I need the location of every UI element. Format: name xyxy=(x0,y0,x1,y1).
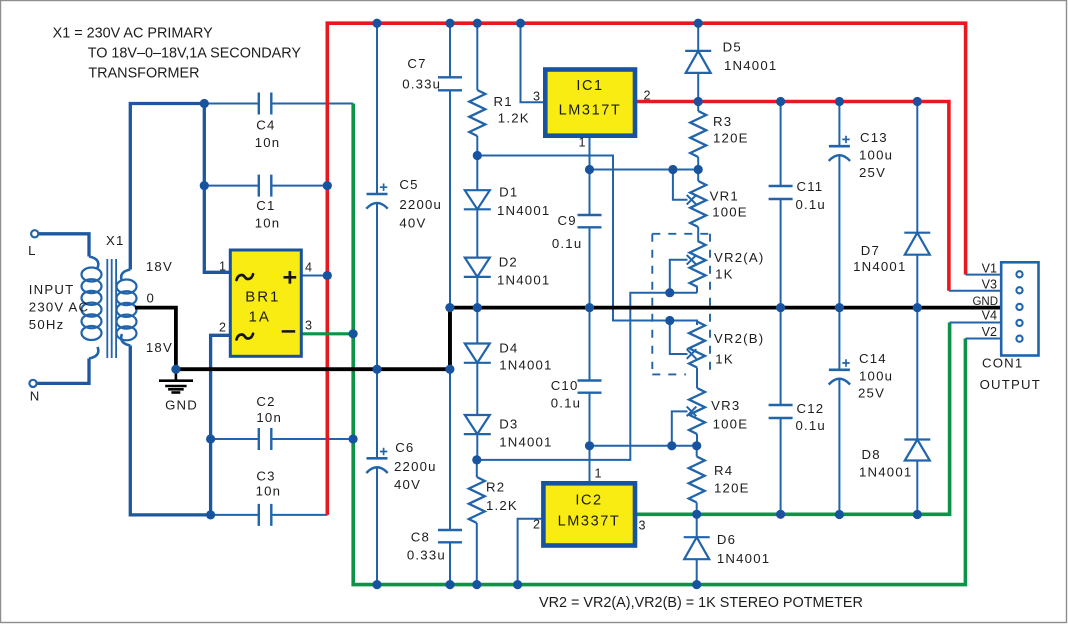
wire IC1 pin1 down / C9 column xyxy=(589,136,591,308)
svg-text:GND: GND xyxy=(165,398,198,413)
wire V4 stub xyxy=(950,322,1002,324)
svg-text:C5: C5 xyxy=(399,177,418,192)
svg-text:V4: V4 xyxy=(982,309,997,323)
green negative rail (unregulated -) xyxy=(353,104,965,585)
svg-text:1K: 1K xyxy=(715,352,734,367)
svg-text:C1: C1 xyxy=(256,198,275,213)
wire V1 stub xyxy=(966,274,1002,276)
svg-text:100E: 100E xyxy=(712,205,748,220)
svg-text:2200u: 2200u xyxy=(399,197,442,212)
svg-text:BR1: BR1 xyxy=(245,289,280,306)
wire IC1 adj line xyxy=(590,169,699,171)
red positive rail (unregulated +) xyxy=(327,23,965,515)
wire secondary bottom to C3 row xyxy=(130,346,210,515)
node green vertical dots xyxy=(349,329,358,338)
svg-text:1N4001: 1N4001 xyxy=(497,203,550,218)
wire secondary top to C4 row xyxy=(130,104,204,270)
svg-text:D6: D6 xyxy=(717,532,736,547)
svg-text:1N4001: 1N4001 xyxy=(497,273,550,288)
wire N lead xyxy=(37,359,90,384)
svg-text:18V: 18V xyxy=(146,340,173,355)
svg-text:LM337T: LM337T xyxy=(558,514,621,530)
potentiometer VR2(B) xyxy=(670,321,705,389)
svg-text:TO 18V–0–18V,1A SECONDARY: TO 18V–0–18V,1A SECONDARY xyxy=(88,46,302,62)
svg-text:C7: C7 xyxy=(407,56,426,71)
title note text xyxy=(53,25,302,81)
svg-text:LM317T: LM317T xyxy=(559,103,622,119)
svg-text:0.1u: 0.1u xyxy=(796,197,826,212)
svg-text:C10: C10 xyxy=(551,378,579,393)
svg-text:1K: 1K xyxy=(715,267,734,282)
svg-text:TRANSFORMER: TRANSFORMER xyxy=(88,66,199,82)
resistor R2 xyxy=(469,460,485,585)
svg-text:V2: V2 xyxy=(982,325,997,339)
svg-text:VR1: VR1 xyxy=(710,189,739,204)
dashed gang box VR2 xyxy=(652,234,710,375)
node red vertical dots xyxy=(323,181,332,190)
green rail IC2 output to V4 xyxy=(635,323,950,515)
black gnd jog over C7/C8 column xyxy=(448,308,452,370)
svg-text:18V: 18V xyxy=(146,259,173,274)
wire IC1 pin3 from top rail xyxy=(521,23,546,102)
svg-text:1N4001: 1N4001 xyxy=(859,465,912,480)
svg-text:1N4001: 1N4001 xyxy=(853,259,906,274)
svg-text:C2: C2 xyxy=(256,394,275,409)
capacitor C6 (electrolytic) xyxy=(366,369,387,584)
diode D8 xyxy=(904,308,930,515)
svg-text:VR2(A): VR2(A) xyxy=(714,250,764,265)
svg-text:C6: C6 xyxy=(395,440,414,455)
svg-text:IC1: IC1 xyxy=(576,78,603,94)
svg-text:25V: 25V xyxy=(858,386,885,401)
primary winding xyxy=(89,257,98,269)
svg-text:1: 1 xyxy=(595,467,602,481)
capacitor C4 xyxy=(204,93,353,115)
wire BR1 pin4 to red xyxy=(301,275,326,277)
svg-text:0.33u: 0.33u xyxy=(407,548,446,563)
diode D7 xyxy=(904,102,930,308)
capacitor C2 xyxy=(211,428,354,450)
svg-text:C12: C12 xyxy=(797,401,825,416)
svg-text:X1: X1 xyxy=(106,233,125,248)
svg-text:10n: 10n xyxy=(255,216,281,231)
svg-text:V3: V3 xyxy=(982,278,997,292)
svg-text:VR3: VR3 xyxy=(711,398,740,413)
node IC1 out rail dots xyxy=(694,97,703,106)
secondary winding xyxy=(121,270,130,282)
wire L lead xyxy=(38,234,89,257)
svg-text:1.2K: 1.2K xyxy=(498,111,530,126)
svg-text:D2: D2 xyxy=(499,255,518,270)
node top rail dots xyxy=(372,19,381,28)
svg-text:1N4001: 1N4001 xyxy=(717,551,770,566)
svg-text:230V AC: 230V AC xyxy=(29,300,89,315)
svg-text:1N4001: 1N4001 xyxy=(724,58,777,73)
wire V3 stub xyxy=(949,290,1001,292)
node ac and adj dots xyxy=(200,99,209,108)
svg-text:2: 2 xyxy=(644,89,651,103)
node labels V1 V3 GND V4 V2 xyxy=(972,261,998,339)
diode D6 xyxy=(684,514,710,584)
svg-text:1: 1 xyxy=(578,136,585,150)
black centre-tap / GND rail xyxy=(135,308,1001,370)
svg-text:100u: 100u xyxy=(859,148,893,163)
svg-text:R3: R3 xyxy=(713,114,732,129)
svg-text:GND: GND xyxy=(972,296,998,308)
terminal L xyxy=(31,230,38,237)
svg-text:C13: C13 xyxy=(860,130,888,145)
svg-text:D7: D7 xyxy=(861,243,880,258)
svg-text:3: 3 xyxy=(305,319,312,333)
svg-text:100u: 100u xyxy=(859,369,893,384)
svg-text:R4: R4 xyxy=(714,463,733,478)
svg-text:4: 4 xyxy=(305,261,312,275)
svg-text:CON1: CON1 xyxy=(982,356,1023,371)
svg-text:C14: C14 xyxy=(859,351,887,366)
svg-text:L: L xyxy=(28,243,37,258)
svg-text:R1: R1 xyxy=(494,94,513,109)
svg-text:0.1u: 0.1u xyxy=(796,418,826,433)
svg-text:D8: D8 xyxy=(862,447,881,462)
svg-text:C8: C8 xyxy=(411,530,430,545)
connector CON1 xyxy=(1001,262,1038,355)
regulator IC2 LM337T xyxy=(533,467,646,546)
svg-text:2: 2 xyxy=(533,518,540,532)
svg-text:IC2: IC2 xyxy=(575,493,602,509)
diode D3 xyxy=(464,415,491,460)
node gnd rail dots xyxy=(171,365,180,374)
svg-text:X1 = 230V AC PRIMARY: X1 = 230V AC PRIMARY xyxy=(53,25,214,41)
capacitor C5 (electrolytic) xyxy=(366,23,387,369)
capacitor C9 xyxy=(578,215,602,227)
svg-text:10n: 10n xyxy=(256,484,282,499)
regulator IC1 LM317T xyxy=(533,70,651,150)
resistor R3 xyxy=(690,102,706,170)
capacitor C7 xyxy=(438,23,462,307)
diode D1 xyxy=(464,156,491,258)
svg-text:D1: D1 xyxy=(499,185,518,200)
core laminations xyxy=(107,259,116,358)
svg-text:40V: 40V xyxy=(399,216,426,231)
svg-text:1A: 1A xyxy=(249,309,271,326)
capacitor C12 xyxy=(769,308,793,515)
svg-text:3: 3 xyxy=(639,519,646,533)
svg-text:C4: C4 xyxy=(256,118,275,133)
diode D5 xyxy=(685,23,711,101)
svg-text:3: 3 xyxy=(533,90,540,104)
svg-text:25V: 25V xyxy=(859,165,886,180)
bridge rectifier BR1 xyxy=(219,250,312,356)
svg-text:V1: V1 xyxy=(982,261,997,275)
svg-text:2200u: 2200u xyxy=(394,459,437,474)
capacitor C13 (electrolytic) xyxy=(829,102,850,308)
capacitor C10 xyxy=(578,308,602,446)
svg-text:0.33u: 0.33u xyxy=(402,77,441,92)
svg-text:D3: D3 xyxy=(499,417,518,432)
svg-text:C11: C11 xyxy=(797,179,824,194)
red rail IC1 output to V3 xyxy=(635,102,949,291)
capacitor C8 xyxy=(438,308,462,585)
capacitor C3 xyxy=(211,504,328,526)
potentiometer VR2(A) xyxy=(670,241,706,293)
wire R1 junction to VR2(B) node xyxy=(477,156,697,326)
resistor R4 xyxy=(689,446,705,515)
svg-text:40V: 40V xyxy=(394,477,421,492)
wire IC2 pin2 to green rail xyxy=(518,519,544,585)
svg-text:2: 2 xyxy=(219,321,226,335)
svg-text:OUTPUT: OUTPUT xyxy=(980,377,1041,392)
capacitor C11 xyxy=(769,102,793,308)
resistor R1 xyxy=(469,23,485,155)
svg-text:C3: C3 xyxy=(256,469,275,484)
diode D4 xyxy=(464,308,491,415)
wire BR1 pin1 feed xyxy=(204,104,230,273)
wire V2 stub xyxy=(965,338,1001,340)
potentiometer VR3 xyxy=(672,388,705,446)
transformer X1 xyxy=(82,257,137,359)
svg-text:0: 0 xyxy=(147,291,156,306)
svg-text:VR2 = VR2(A),VR2(B) = 1K STERE: VR2 = VR2(A),VR2(B) = 1K STEREO POTMETER xyxy=(539,595,863,611)
svg-text:1N4001: 1N4001 xyxy=(499,435,552,450)
svg-text:10n: 10n xyxy=(256,410,282,425)
svg-text:50Hz: 50Hz xyxy=(29,317,65,332)
capacitor C1 xyxy=(204,175,327,197)
svg-text:INPUT: INPUT xyxy=(29,282,75,297)
svg-text:D5: D5 xyxy=(723,40,742,55)
svg-text:C9: C9 xyxy=(558,213,577,228)
wire BR1 pin2 feed xyxy=(211,335,231,515)
svg-text:10n: 10n xyxy=(255,135,281,150)
svg-text:R2: R2 xyxy=(486,480,505,495)
diode D2 xyxy=(464,258,491,308)
svg-text:0.1u: 0.1u xyxy=(551,396,581,411)
svg-text:120E: 120E xyxy=(714,481,750,496)
svg-text:1.2K: 1.2K xyxy=(486,498,518,513)
wire D3/R2 junction to VR2(A) wiper xyxy=(477,287,697,460)
terminal N xyxy=(29,380,36,387)
potentiometer VR1 xyxy=(673,170,706,242)
capacitor C14 (electrolytic) xyxy=(829,308,850,515)
svg-text:VR2(B): VR2(B) xyxy=(714,331,764,346)
svg-text:120E: 120E xyxy=(713,131,749,146)
svg-text:100E: 100E xyxy=(713,417,749,432)
svg-text:0.1u: 0.1u xyxy=(552,236,582,251)
node green bottom rail dots xyxy=(372,580,381,589)
wire IC2 adj line xyxy=(590,446,697,483)
svg-text:N: N xyxy=(30,389,41,404)
ground symbol xyxy=(159,369,193,392)
svg-text:1N4001: 1N4001 xyxy=(499,358,552,373)
svg-text:D4: D4 xyxy=(499,341,518,356)
svg-text:1: 1 xyxy=(219,260,226,274)
wire BR1 pin3 to green xyxy=(301,332,352,335)
node IC2 out rail dots xyxy=(692,510,701,519)
